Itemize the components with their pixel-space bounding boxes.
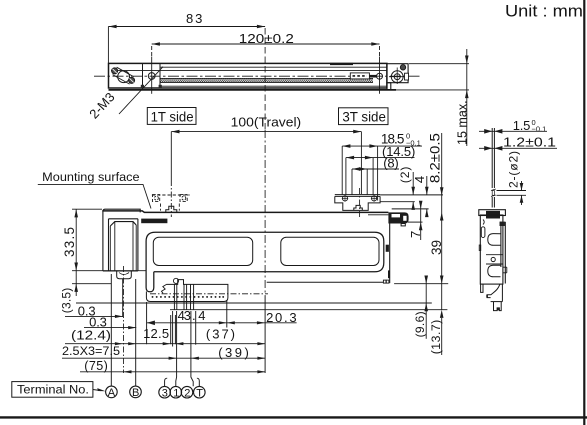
3T lever centerline [359,188,361,218]
dimension 100 travel [171,114,361,217]
dimension (9.6) vertical [413,276,428,339]
top view left bracket [141,63,162,88]
dimension 120±0.2 [152,32,380,57]
terminal circle 2 [181,386,193,399]
svg-text:(3.5): (3.5) [60,288,74,314]
terminal lead T [196,311,200,386]
terminal block dotted row [152,296,225,298]
dimension 8.2±0.5 vertical [427,133,443,195]
bottom ext line block-left [146,302,148,344]
left M3 hole centerline [151,57,153,94]
rail end dark bar [330,63,353,65]
left slot circle [118,71,130,83]
svg-text:(2): (2) [398,167,412,184]
carriage black blob [368,212,409,226]
wiper carriage [350,73,369,79]
face plate outer [146,232,384,292]
dimension (13.7) vertical [429,310,444,355]
svg-text:(13.7): (13.7) [429,320,443,355]
right screw [400,65,408,80]
terminal circle A [106,386,118,399]
terminal circle 3 [159,386,171,399]
dimension (8) [352,156,399,195]
svg-text:3: 3 [162,387,168,399]
side view slot upper [488,234,501,246]
left end block [103,209,140,271]
case right side [267,224,390,284]
top view inner rails [111,67,387,86]
left window [153,237,252,265]
dimension row (75) [80,359,265,374]
bottom ext line 12.5-right [170,315,172,344]
lever base cup 1T [166,206,177,212]
svg-text:(9.6): (9.6) [413,311,427,337]
right drive pulley [389,68,406,85]
dimension row (12.4) 12.5 (37) [65,326,265,346]
svg-text:(8): (8) [383,156,399,171]
svg-text:.4: .4 [192,308,206,323]
dimension 7 vertical [408,201,423,240]
bottom ext line 43.4-right [226,300,228,328]
svg-text:Terminal No.: Terminal No. [17,383,89,397]
dimension 1.5 lever [479,118,547,134]
side view center hole [491,257,495,261]
left M3 hole [148,73,155,80]
svg-text:8.2±0.5: 8.2±0.5 [427,133,442,183]
dimension (14.5) [346,144,415,195]
svg-text:A: A [108,387,116,399]
end block bottom tab [117,271,132,279]
side view lever [491,128,496,208]
end block centerline [123,266,125,373]
svg-text:83: 83 [186,11,202,26]
side view mid lines [486,254,503,256]
dimension 4 vertical [412,176,429,217]
svg-text:(75): (75) [84,359,108,373]
dimension (2) vertical [398,167,415,210]
dimension 83 [108,11,265,63]
svg-text:7: 7 [408,231,423,238]
svg-text:2.5X3=7.5: 2.5X3=7.5 [62,344,120,358]
svg-text:1.2±0.1: 1.2±0.1 [503,134,556,149]
dimension 15 max [396,49,470,146]
svg-text:1T side: 1T side [151,109,194,124]
svg-text:2: 2 [184,387,190,399]
top view body outline [109,63,397,90]
svg-text:100(Travel): 100(Travel) [231,114,302,129]
svg-text:1: 1 [173,387,179,399]
left screw top [112,68,118,74]
side view slot lower [488,265,501,277]
hidden mounting tabs 1T (dashed) [152,195,190,211]
left slot tangents [113,75,130,85]
svg-text:15 max.: 15 max. [455,100,470,145]
dimension 33.5 [62,209,146,271]
3T side label box [339,108,389,125]
1T side label box [147,108,196,125]
border frame bottom [0,416,587,418]
svg-text:39: 39 [429,240,444,255]
wiper black link [368,75,377,78]
dimension row 43.4 / 20.3 [147,308,297,325]
ext line lever top step [392,208,429,210]
ext line blob bottom [408,221,423,223]
side view bottom feet [481,284,503,311]
pcb reference lines [76,284,448,310]
side view top cap [479,210,506,226]
svg-text:2-(ø2): 2-(ø2) [506,151,520,188]
bottom ext line B [135,279,137,386]
travel center construction line [264,28,266,130]
svg-text:Mounting surface: Mounting surface [42,170,140,184]
svg-text:2-M3: 2-M3 [86,89,117,121]
svg-text:12.5: 12.5 [143,326,169,341]
svg-text:33.5: 33.5 [62,227,77,257]
2-M3 leader line [119,67,163,114]
terminal lead 2 [191,311,193,386]
dimension row 0.3 first [65,304,123,319]
ext line bracket top right [380,194,443,196]
side view body [479,215,507,284]
dimension 18.5 [342,131,422,200]
left screw bottom [129,77,135,83]
bottom ext line A [110,274,112,386]
svg-text:−0.1: −0.1 [532,124,547,133]
terminal axis dash line [150,293,268,295]
terminal circle B [130,386,142,399]
svg-text:(12.4): (12.4) [71,327,111,342]
dimension row 0.3 second [84,315,136,330]
terminal lead 3 [165,311,173,386]
right M3 hole with flats [377,73,383,79]
terminal circle 1 [170,386,182,399]
svg-text:Unit : mm: Unit : mm [505,2,583,21]
top view center axis line [94,75,422,77]
svg-text:43: 43 [178,308,191,323]
bottom ext line 37-left [174,315,176,344]
border frame right [583,0,585,425]
right M3 hole centerline [379,57,381,94]
terminal pins [174,284,193,309]
svg-text:1.5: 1.5 [513,118,531,133]
top view knurled strip [160,79,373,82]
mounting surface bar [141,219,167,224]
dimension 2-(ø2) [497,151,527,205]
svg-text:T: T [196,387,203,399]
ext line lever shoulder [380,201,415,203]
svg-text:3T side: 3T side [342,110,386,125]
dimension row 2.5X3=7.5 (39) [62,344,265,360]
terminal block [146,278,228,301]
lever base cup 3T [354,205,363,210]
dimension 1.2±0.1 [479,134,557,150]
top view right bracket [387,64,408,90]
front body top line [102,211,388,213]
svg-text:B: B [132,387,139,399]
svg-text:(37): (37) [206,327,235,342]
dimension (3.5) [60,271,112,314]
side view left hook slot [481,227,485,238]
dimension 39 vertical [429,195,444,309]
3T rear bracket [335,195,380,211]
bottom ext line tab-left [122,279,124,317]
terminal lead 1 [175,311,178,386]
svg-text:120±0.2: 120±0.2 [239,32,294,46]
mounting surface label [38,170,151,209]
terminal circle T [194,386,206,399]
svg-text:4: 4 [412,176,427,183]
right window [281,237,379,265]
terminal no. box [12,382,106,398]
